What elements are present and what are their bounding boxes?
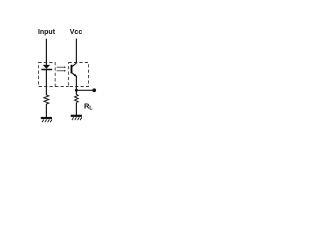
svg-text:Input: Input [38,29,56,36]
svg-text:Vcc: Vcc [70,29,83,36]
